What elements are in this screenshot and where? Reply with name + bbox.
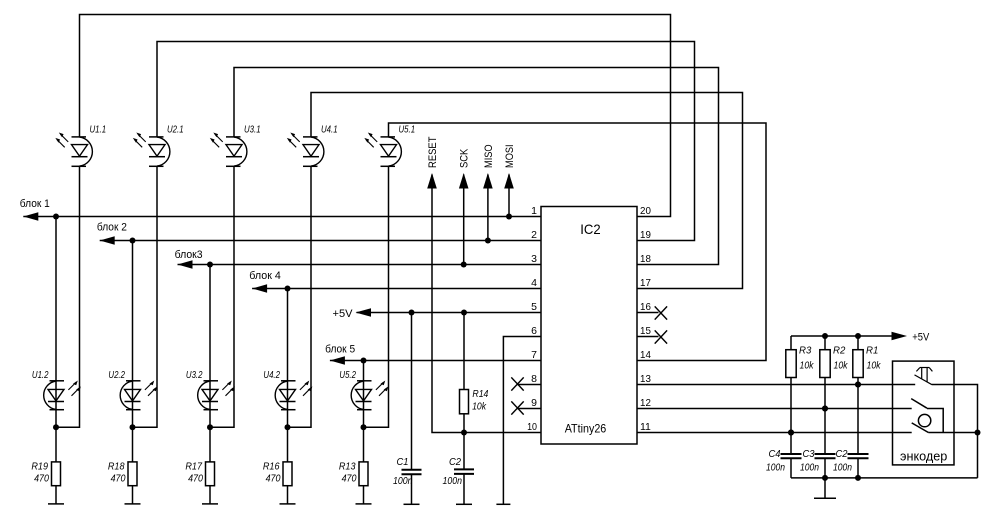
svg-text:2: 2 bbox=[531, 229, 537, 241]
wire R3/C4 column bbox=[790, 336, 792, 478]
resistor R16 470 bbox=[263, 461, 292, 486]
svg-text:R2: R2 bbox=[833, 345, 845, 357]
svg-text:C2: C2 bbox=[836, 448, 848, 460]
svg-text:U1.2: U1.2 bbox=[32, 369, 49, 381]
junction bbox=[855, 382, 861, 388]
wire RESET bbox=[432, 175, 541, 433]
LED U4.1 bbox=[287, 124, 338, 167]
svg-text:C4: C4 bbox=[769, 448, 781, 460]
pin numbers right 20-11 bbox=[640, 205, 651, 433]
encoder contact A bbox=[911, 399, 943, 433]
LED U2.1 bbox=[133, 124, 184, 167]
svg-text:+5V: +5V bbox=[912, 332, 930, 344]
junction bbox=[207, 262, 213, 268]
svg-text:U5.1: U5.1 bbox=[399, 124, 416, 136]
wire IC2 pin 6 to ground bbox=[503, 337, 541, 505]
svg-text:6: 6 bbox=[531, 325, 537, 337]
wire U4.1 anode to IC2 right pin bbox=[311, 93, 743, 289]
arrow MISO bbox=[483, 173, 493, 189]
wire U3.1 anode to IC2 right pin bbox=[234, 68, 719, 265]
junction node bbox=[361, 424, 367, 430]
label MOSI bbox=[504, 144, 516, 168]
wire U4.1 cathode down to node bbox=[288, 166, 312, 427]
junction bbox=[285, 286, 291, 292]
svg-text:17: 17 bbox=[640, 277, 651, 289]
svg-text:ATtiny26: ATtiny26 bbox=[565, 422, 607, 436]
label блок 3 bbox=[175, 249, 203, 261]
IC U-box IC2 ATtiny26 bbox=[541, 207, 637, 445]
svg-text:R17: R17 bbox=[185, 461, 203, 473]
wire U2.1 anode to IC2 right pin bbox=[157, 42, 695, 241]
label RESET bbox=[427, 136, 439, 168]
label +5V right bbox=[912, 332, 930, 344]
wire блок 4 row bbox=[252, 288, 541, 290]
svg-text:R18: R18 bbox=[108, 461, 125, 473]
svg-text:13: 13 bbox=[640, 373, 651, 385]
svg-text:блок 1: блок 1 bbox=[20, 198, 50, 210]
svg-text:10k: 10k bbox=[834, 360, 849, 372]
ground bbox=[48, 503, 64, 505]
wire R2/C3 column bbox=[824, 336, 826, 478]
wire R14 column bbox=[463, 313, 465, 433]
resistor R19 470 bbox=[31, 461, 60, 486]
svg-text:R14: R14 bbox=[472, 388, 488, 400]
svg-text:470: 470 bbox=[266, 473, 281, 485]
wire +5V rail right bbox=[791, 335, 893, 337]
label MISO bbox=[483, 144, 495, 168]
wire U5.1 anode to IC2 right pin bbox=[389, 123, 767, 361]
junction bbox=[822, 406, 828, 412]
junction bbox=[461, 430, 467, 436]
svg-text:U4.1: U4.1 bbox=[321, 124, 338, 136]
ground bbox=[280, 503, 296, 505]
svg-text:U3.1: U3.1 bbox=[244, 124, 261, 136]
svg-text:20: 20 bbox=[640, 205, 651, 217]
svg-text:10k: 10k bbox=[472, 401, 487, 413]
wire IC2 pin 13 to encoder bbox=[637, 384, 915, 386]
label энкодер bbox=[900, 449, 947, 464]
wire +5V rail to IC2 pin 5 bbox=[357, 312, 542, 314]
encoder common circle bbox=[918, 414, 930, 426]
svg-text:470: 470 bbox=[188, 473, 203, 485]
junction node bbox=[53, 424, 59, 430]
encoder contact B bbox=[912, 423, 978, 433]
svg-text:C2: C2 bbox=[449, 456, 461, 468]
svg-text:энкодер: энкодер bbox=[900, 449, 947, 464]
ground bbox=[356, 503, 372, 505]
svg-text:блок 2: блок 2 bbox=[97, 222, 127, 234]
svg-text:7: 7 bbox=[531, 349, 537, 361]
svg-text:5: 5 bbox=[531, 301, 537, 313]
svg-text:3: 3 bbox=[531, 253, 537, 265]
svg-text:R13: R13 bbox=[339, 461, 356, 473]
junction bbox=[409, 310, 415, 316]
capacitor C2 100n bbox=[443, 433, 475, 505]
arrow SCK bbox=[459, 173, 469, 189]
svg-text:+5V: +5V bbox=[333, 308, 354, 320]
LED U5.2 bbox=[339, 369, 388, 410]
svg-text:100n: 100n bbox=[766, 462, 785, 474]
wire MOSI bbox=[508, 175, 510, 217]
wire U5.2 column bbox=[363, 361, 365, 504]
svg-text:U3.2: U3.2 bbox=[186, 369, 203, 381]
pin numbers left 1-10 bbox=[527, 205, 537, 433]
svg-text:блок 5: блок 5 bbox=[325, 344, 355, 356]
wire U1.2 column bbox=[55, 217, 57, 504]
wire блок 5 row bbox=[330, 360, 541, 362]
wire блок 3 row bbox=[178, 264, 542, 266]
resistor R3 10k bbox=[786, 345, 814, 378]
junction bbox=[361, 358, 367, 364]
svg-text:8: 8 bbox=[531, 373, 537, 385]
off-page arrow блок 3 bbox=[178, 260, 193, 269]
junction node bbox=[285, 424, 291, 430]
ground bbox=[404, 503, 420, 505]
label блок 5 bbox=[325, 344, 355, 356]
arrow RESET bbox=[427, 173, 437, 189]
svg-text:C1: C1 bbox=[397, 456, 409, 468]
wire U1.1 anode to IC2 right pin bbox=[80, 15, 671, 217]
svg-text:9: 9 bbox=[531, 397, 537, 409]
svg-text:470: 470 bbox=[342, 473, 357, 485]
off-page arrow блок 2 bbox=[100, 236, 115, 245]
junction R1 to pin row bbox=[855, 382, 861, 388]
LED U4.2 bbox=[263, 369, 312, 410]
junction bbox=[461, 262, 467, 268]
wire button to ground rail bbox=[932, 385, 978, 478]
svg-text:RESET: RESET bbox=[427, 136, 439, 168]
svg-text:R3: R3 bbox=[799, 345, 811, 357]
svg-text:SCK: SCK bbox=[459, 148, 471, 168]
label +5V bbox=[333, 308, 354, 320]
wire U1.1 cathode down to node bbox=[56, 166, 80, 427]
label SCK bbox=[459, 148, 471, 168]
no-connect X pin 15 bbox=[655, 330, 667, 343]
svg-text:U2.1: U2.1 bbox=[167, 124, 184, 136]
wire MISO bbox=[487, 175, 489, 241]
ground bbox=[456, 503, 472, 505]
off-page arrow блок 4 bbox=[252, 284, 267, 293]
resistor R14 10k bbox=[460, 388, 489, 414]
LED U1.1 bbox=[55, 124, 106, 167]
label блок 2 bbox=[97, 222, 127, 234]
label блок 1 bbox=[20, 198, 50, 210]
svg-text:12: 12 bbox=[640, 397, 651, 409]
svg-text:MOSI: MOSI bbox=[504, 144, 516, 168]
svg-text:IC2: IC2 bbox=[580, 221, 601, 237]
resistor R1 10k bbox=[853, 345, 881, 378]
svg-text:10: 10 bbox=[527, 421, 537, 433]
wire ground rail bbox=[791, 477, 978, 479]
junction bbox=[855, 333, 861, 339]
label блок 4 bbox=[249, 270, 280, 282]
arrow MOSI bbox=[504, 173, 514, 189]
svg-text:18: 18 bbox=[640, 253, 651, 265]
wire IC2 pin 9 stub bbox=[518, 408, 542, 410]
svg-text:100n: 100n bbox=[833, 462, 852, 474]
ground bbox=[125, 503, 141, 505]
junction bbox=[975, 430, 981, 436]
encoder box bbox=[893, 361, 955, 465]
capacitor C2 100n bbox=[833, 448, 869, 474]
capacitor C1 100n bbox=[393, 313, 422, 505]
svg-text:C3: C3 bbox=[803, 448, 815, 460]
svg-text:MISO: MISO bbox=[483, 144, 495, 168]
svg-text:100n: 100n bbox=[393, 475, 413, 487]
junction bbox=[855, 475, 861, 481]
wire SCK bbox=[463, 175, 465, 265]
svg-text:R1: R1 bbox=[866, 345, 878, 357]
svg-text:U1.1: U1.1 bbox=[90, 124, 107, 136]
junction bbox=[822, 333, 828, 339]
capacitor C3 100n bbox=[800, 448, 836, 474]
svg-text:10k: 10k bbox=[800, 360, 815, 372]
svg-text:470: 470 bbox=[34, 473, 49, 485]
resistor R2 10k bbox=[820, 345, 848, 378]
junction node bbox=[207, 424, 213, 430]
push button contact (pin 13) bbox=[915, 368, 933, 385]
wire IC2 pin 11 to encoder bbox=[637, 432, 912, 434]
svg-text:R16: R16 bbox=[263, 461, 280, 473]
svg-text:блок3: блок3 bbox=[175, 249, 203, 261]
wire U3.1 cathode down to node bbox=[210, 166, 234, 427]
svg-text:100n: 100n bbox=[443, 475, 463, 487]
wire U3.2 column bbox=[209, 265, 211, 504]
junction R3 to pin row bbox=[788, 430, 794, 436]
svg-text:блок 4: блок 4 bbox=[249, 270, 280, 282]
no-connect X pin 16 bbox=[655, 306, 667, 319]
LED U1.2 bbox=[32, 369, 81, 410]
svg-text:U2.2: U2.2 bbox=[108, 369, 125, 381]
svg-text:470: 470 bbox=[111, 473, 126, 485]
junction R2 to pin row bbox=[822, 406, 828, 412]
svg-text:4: 4 bbox=[531, 277, 537, 289]
ground bbox=[814, 478, 836, 498]
wire R1/C2 column bbox=[857, 336, 859, 478]
capacitor C4 100n bbox=[766, 448, 802, 474]
svg-text:1: 1 bbox=[531, 205, 537, 217]
wire U2.1 cathode down to node bbox=[133, 166, 158, 427]
svg-text:100n: 100n bbox=[800, 462, 819, 474]
svg-text:16: 16 bbox=[640, 301, 651, 313]
wire IC2 pin 15 stub bbox=[637, 336, 659, 338]
ground bbox=[202, 503, 218, 505]
svg-text:R19: R19 bbox=[31, 461, 48, 473]
wire блок 1 row bbox=[23, 216, 541, 218]
svg-text:11: 11 bbox=[640, 421, 651, 433]
svg-text:10k: 10k bbox=[867, 360, 882, 372]
junction bbox=[130, 238, 136, 244]
wire U2.2 column bbox=[132, 241, 134, 504]
junction bbox=[822, 475, 828, 481]
LED U3.2 bbox=[186, 369, 235, 410]
wire IC2 pin 8 stub bbox=[518, 384, 542, 386]
wire U5.1 cathode down to node bbox=[364, 166, 389, 427]
wire блок 2 row bbox=[100, 240, 541, 242]
LED U5.1 bbox=[364, 124, 415, 167]
off-page arrow блок 5 bbox=[330, 356, 345, 365]
off-page arrow блок 1 bbox=[23, 212, 38, 221]
wire IC2 pin 16 stub bbox=[637, 312, 659, 314]
wire U4.2 column bbox=[287, 289, 289, 504]
resistor R18 470 bbox=[108, 461, 137, 486]
junction bbox=[485, 238, 491, 244]
off-page arrow +5V bbox=[356, 308, 372, 317]
off-page arrow +5V right bbox=[892, 332, 908, 341]
ground bbox=[496, 503, 510, 505]
wire IC2 pin 12 to encoder bbox=[637, 408, 912, 410]
resistor R13 470 bbox=[339, 461, 368, 486]
svg-text:14: 14 bbox=[640, 349, 651, 361]
LED U2.2 bbox=[108, 369, 157, 410]
svg-text:U5.2: U5.2 bbox=[339, 369, 356, 381]
junction bbox=[53, 214, 59, 220]
junction node bbox=[130, 424, 136, 430]
svg-text:U4.2: U4.2 bbox=[263, 369, 280, 381]
svg-text:19: 19 bbox=[640, 229, 651, 241]
no-connect X pin 9 bbox=[511, 401, 523, 414]
LED U3.1 bbox=[210, 124, 261, 167]
junction bbox=[788, 430, 794, 436]
junction bbox=[506, 214, 512, 220]
no-connect X pin 8 bbox=[511, 377, 523, 390]
resistor R17 470 bbox=[185, 461, 214, 486]
svg-text:15: 15 bbox=[640, 325, 651, 337]
junction bbox=[461, 310, 467, 316]
